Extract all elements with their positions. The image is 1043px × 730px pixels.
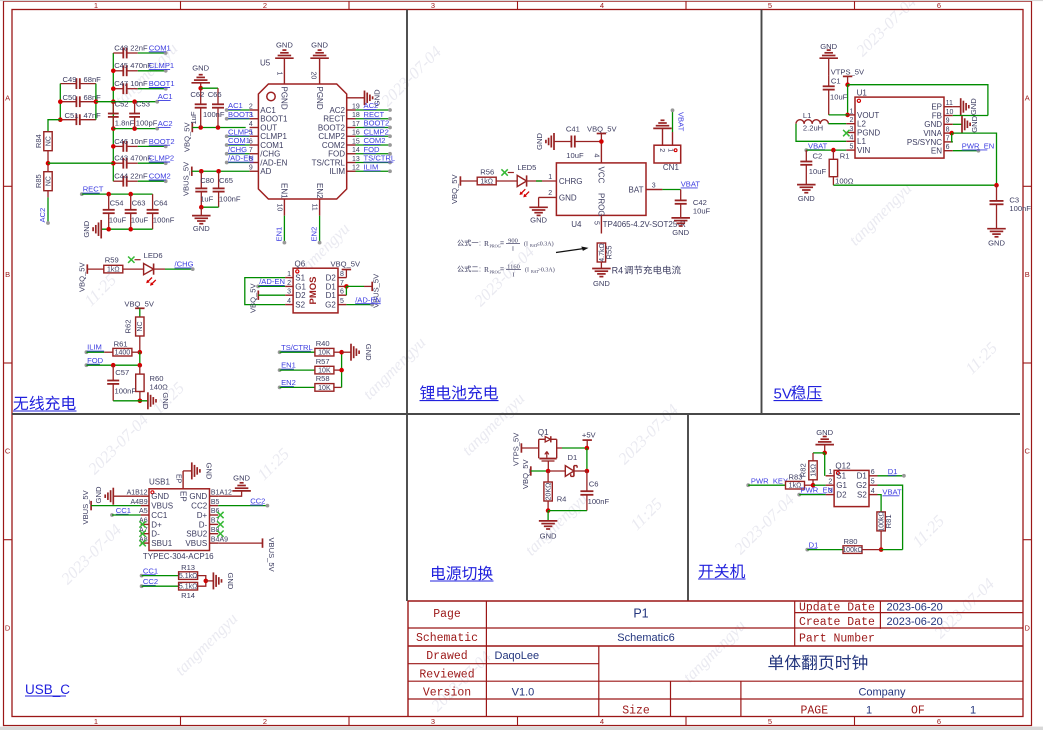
- svg-text:G1: G1: [295, 282, 306, 291]
- op-amp U5 wireless charger IC body: [258, 84, 346, 199]
- svg-text:B4A9: B4A9: [211, 536, 228, 543]
- svg-text:6: 6: [937, 1, 941, 10]
- svg-text:GND: GND: [205, 462, 214, 479]
- section title 电源切换: [432, 566, 493, 581]
- USB1 pin A7 D-: [141, 533, 149, 535]
- resistor R60 140: [139, 365, 141, 374]
- svg-text:Page: Page: [433, 608, 461, 621]
- svg-text:GND: GND: [593, 279, 610, 288]
- svg-text:BOOT1: BOOT1: [149, 79, 175, 88]
- svg-text:VBUS: VBUS: [151, 502, 173, 511]
- svg-text:EN1: EN1: [274, 227, 283, 242]
- wire FB to loop: [953, 115, 988, 117]
- svg-text:GND: GND: [798, 194, 815, 203]
- svg-text:EP: EP: [175, 474, 182, 484]
- svg-text:1: 1: [828, 469, 832, 476]
- svg-text:A: A: [5, 94, 10, 103]
- svg-text:2: 2: [548, 190, 552, 197]
- svg-text:3: 3: [431, 717, 435, 726]
- svg-text:EN2: EN2: [315, 183, 324, 199]
- U5 EP pin to ground: [347, 97, 365, 99]
- svg-text:1400: 1400: [115, 350, 131, 357]
- svg-text:1kΩ: 1kΩ: [480, 178, 493, 185]
- svg-text:CLMP2: CLMP2: [149, 154, 174, 163]
- Q12 pin 2 G1: [826, 484, 835, 486]
- svg-text:R: R: [484, 239, 489, 248]
- svg-text:10uF: 10uF: [693, 206, 711, 215]
- svg-text:COM2: COM2: [364, 136, 386, 145]
- wire to Q1 source: [521, 447, 538, 449]
- svg-text:100nF: 100nF: [153, 215, 175, 224]
- svg-text:/CHG: /CHG: [228, 145, 247, 154]
- svg-text:NC: NC: [137, 321, 144, 331]
- wire PWR_KEY to R83: [748, 484, 785, 486]
- capacitor C65 100nF: [218, 171, 220, 188]
- svg-text:I: I: [512, 271, 514, 278]
- svg-text:C66: C66: [208, 90, 222, 99]
- svg-text:TS/CTRL: TS/CTRL: [364, 154, 396, 163]
- svg-text:22nF: 22nF: [130, 172, 148, 181]
- USB1 pin A5 CC1: [141, 514, 149, 516]
- svg-text:CLMP1: CLMP1: [149, 61, 174, 70]
- svg-text:20KΩ: 20KΩ: [546, 483, 553, 501]
- svg-text:B: B: [1025, 270, 1030, 279]
- resistor R55 4.7k PROG: [597, 243, 605, 262]
- USB1 pin B8 SBU2: [210, 533, 219, 535]
- svg-text:8: 8: [946, 127, 950, 134]
- capacitor C3 100nF: [996, 185, 998, 201]
- svg-text:FB: FB: [932, 111, 942, 120]
- svg-text:GND: GND: [559, 193, 577, 202]
- Q12 pin 6 D1: [869, 475, 878, 477]
- Q6 pin 8 D2: [338, 277, 346, 279]
- junction: [111, 161, 116, 166]
- svg-text:5: 5: [768, 1, 772, 10]
- svg-text:COM2: COM2: [149, 172, 171, 181]
- power flag VBQ_5V: [191, 123, 193, 132]
- svg-text:3: 3: [287, 289, 291, 296]
- wire Q1 gate down: [547, 461, 549, 471]
- ground right GND pin: [218, 491, 241, 496]
- ground C42: [671, 218, 690, 226]
- svg-text:C63: C63: [132, 199, 146, 208]
- svg-text:VCC: VCC: [597, 167, 606, 184]
- svg-text:1uF: 1uF: [189, 111, 198, 124]
- wire junction to bus CLMP2 row: [48, 162, 113, 164]
- wire GND to C66 top: [201, 87, 218, 89]
- wire net CC2: [218, 505, 267, 507]
- wire +5V down to D1 cathode: [586, 448, 588, 471]
- connector USB1 TYPEC body: [149, 489, 210, 551]
- svg-text:C50: C50: [63, 93, 77, 102]
- U5 pin 12 ILIM: [347, 170, 356, 172]
- wire net PWR_EN: [953, 150, 979, 152]
- wire to R56: [460, 180, 477, 182]
- svg-text:>0.3A): >0.3A): [538, 267, 555, 274]
- capacitor C62 1uF: [200, 88, 202, 104]
- svg-text:PAGE: PAGE: [801, 704, 829, 717]
- svg-text:C41: C41: [566, 125, 580, 134]
- LED LED5: [517, 175, 526, 186]
- resistor R13 5.1k: [179, 572, 198, 580]
- wire net EN1: [283, 216, 285, 243]
- junction: [132, 126, 137, 131]
- svg-text:R61: R61: [114, 339, 128, 348]
- CN1 pin2 to ground: [662, 128, 664, 145]
- capacitor C46 10nF: [113, 145, 123, 147]
- svg-text:8: 8: [340, 271, 344, 278]
- svg-text:VTPS_5V: VTPS_5V: [831, 68, 865, 77]
- svg-text:1: 1: [548, 174, 552, 181]
- svg-text:GND: GND: [530, 216, 547, 225]
- svg-text:VOUT: VOUT: [857, 111, 879, 120]
- svg-text:5: 5: [768, 717, 772, 726]
- svg-text:4: 4: [849, 135, 853, 142]
- svg-text:L1: L1: [803, 111, 811, 120]
- title block project name 单体翻页时钟: [768, 655, 867, 670]
- ground below C80: [200, 207, 202, 215]
- svg-text::: :: [479, 241, 481, 248]
- capacitor C52 1.8nF: [112, 102, 114, 114]
- net label PWR_KEY: [746, 483, 750, 487]
- svg-text:R4: R4: [557, 494, 567, 503]
- formula 1: [457, 239, 478, 246]
- resistor R1 100: [832, 150, 834, 159]
- svg-text:100nF: 100nF: [203, 110, 225, 119]
- wire to R59: [87, 268, 103, 270]
- USB1 pin A6 D+: [141, 523, 149, 525]
- svg-text:5: 5: [849, 144, 853, 151]
- svg-text:100nF: 100nF: [1009, 204, 1031, 213]
- svg-text:1: 1: [287, 271, 291, 278]
- power flag VTPS_5V at Q1: [520, 443, 522, 452]
- svg-text:Size: Size: [622, 704, 650, 717]
- svg-text:GND: GND: [373, 89, 382, 106]
- svg-text:10K: 10K: [318, 385, 331, 392]
- svg-text:16: 16: [352, 130, 360, 137]
- power flag VBQ_5V at R56: [459, 176, 461, 185]
- wire R85 to AC2: [47, 191, 49, 198]
- wire to R84: [48, 120, 60, 132]
- svg-text:PS/SYNC: PS/SYNC: [907, 138, 942, 147]
- svg-text:CC2: CC2: [191, 502, 208, 511]
- svg-text:USB_C: USB_C: [25, 682, 70, 697]
- svg-text:A: A: [1025, 94, 1030, 103]
- USB1 pin B4A9 VBUS: [210, 542, 219, 544]
- svg-text:AD: AD: [260, 167, 271, 176]
- ground for C54 block: [93, 220, 101, 239]
- frame column ticks top/bottom: [180, 1, 182, 9]
- svg-text:R62: R62: [124, 320, 133, 334]
- IC U4 TP4065: [556, 163, 646, 216]
- svg-text:D2: D2: [836, 491, 847, 500]
- svg-text:13: 13: [352, 156, 360, 163]
- ground Q1 R4: [547, 511, 549, 521]
- wire VBUS right: [218, 542, 262, 544]
- svg-text:C53: C53: [136, 100, 150, 109]
- svg-text:VBUS_5V: VBUS_5V: [81, 489, 90, 524]
- svg-text:4: 4: [287, 298, 291, 305]
- svg-text:R84: R84: [34, 134, 43, 148]
- wire net AC1: [113, 101, 157, 103]
- junction: [111, 144, 116, 149]
- svg-text:/AD-EN: /AD-EN: [355, 295, 381, 304]
- svg-text:U5: U5: [260, 59, 271, 68]
- svg-text:Drawed: Drawed: [426, 650, 467, 663]
- svg-text:2: 2: [263, 1, 267, 10]
- ground left GND pin: [113, 495, 140, 497]
- no-connect X A6 A7 A8: [139, 521, 145, 527]
- wire R62 to junction: [139, 336, 141, 352]
- svg-text:FOD: FOD: [328, 150, 345, 159]
- svg-text:COM1: COM1: [260, 141, 284, 150]
- wire right of C49 block: [95, 84, 97, 120]
- svg-text:BOOT2: BOOT2: [364, 119, 390, 128]
- svg-text:D1: D1: [857, 472, 868, 481]
- svg-text:D1: D1: [809, 540, 819, 549]
- svg-text:2023-06-20: 2023-06-20: [887, 616, 943, 628]
- wire ILIM: [86, 351, 104, 353]
- capacitor C80 1uF: [200, 171, 202, 188]
- wire net CLMP1: [138, 70, 166, 72]
- wire junction down to FOD row: [139, 352, 141, 365]
- svg-text:2: 2: [849, 117, 853, 124]
- U5 pin 11 EN2 bottom: [319, 199, 321, 216]
- capacitor C54 10uF: [108, 194, 110, 210]
- wire net /AD-EN left: [227, 162, 250, 164]
- wire VBAT to VIN: [806, 149, 846, 151]
- wire GND to S1: [824, 453, 826, 476]
- svg-text:OF: OF: [911, 704, 925, 717]
- net label RECT: [80, 192, 84, 196]
- svg-text:VBUS_5V: VBUS_5V: [182, 161, 191, 196]
- wire VBUS left: [91, 505, 141, 507]
- svg-text:LED5: LED5: [517, 163, 536, 172]
- section divider horizontal y=414: [12, 413, 1020, 415]
- svg-text:GND: GND: [276, 40, 293, 49]
- net label CC1 at R13: [140, 574, 144, 578]
- svg-text:AC1: AC1: [228, 101, 243, 110]
- wire net BOOT1 left: [227, 118, 250, 120]
- wire net EN2: [319, 216, 321, 243]
- svg-text:RECT: RECT: [364, 110, 385, 119]
- svg-text:DaqoLee: DaqoLee: [495, 650, 540, 662]
- svg-text:D: D: [5, 624, 11, 633]
- section title 无线充电: [14, 396, 76, 411]
- svg-text:PGND: PGND: [315, 87, 324, 110]
- bottom gray strip: [0, 727, 1043, 730]
- svg-text:VBQ_5V: VBQ_5V: [521, 459, 530, 489]
- svg-text:AC2: AC2: [38, 208, 47, 223]
- svg-text:5: 5: [871, 479, 875, 486]
- svg-text:Create Date: Create Date: [799, 616, 875, 629]
- svg-text:Part Number: Part Number: [799, 633, 875, 646]
- Q6 pin 2 G1: [285, 285, 293, 287]
- ground C3: [987, 229, 1006, 237]
- power flag VBUS_5V: [191, 167, 193, 176]
- capacitor C44 22nF: [113, 180, 123, 182]
- svg-text:Reviewed: Reviewed: [419, 668, 474, 681]
- svg-text:BOOT1: BOOT1: [228, 110, 254, 119]
- capacitor C50 68nF: [60, 101, 76, 103]
- wire R13/R14 common: [198, 576, 206, 587]
- svg-text:3: 3: [431, 1, 435, 10]
- svg-text:VBAT: VBAT: [681, 180, 701, 189]
- svg-text:7: 7: [340, 280, 344, 287]
- svg-text:VTPS_5V: VTPS_5V: [511, 432, 520, 466]
- capacitor C53 100pF: [134, 102, 136, 114]
- U1 pin 7 PS/SYNC: [944, 141, 953, 143]
- wire D1 to R80: [807, 549, 843, 551]
- U5 pin 9 AD: [250, 170, 259, 172]
- U1 pin 6 EN: [944, 150, 953, 152]
- wire VBQ to D1: [531, 470, 548, 472]
- wire LED5 to U4 pin1: [527, 180, 557, 182]
- capacitor C45 470nF: [113, 70, 123, 72]
- svg-text:1kΩ: 1kΩ: [789, 483, 802, 490]
- svg-text:47nF: 47nF: [84, 111, 102, 120]
- junction: [599, 139, 604, 144]
- net label EN1: [278, 368, 282, 372]
- resistor R57 10K: [315, 366, 334, 374]
- svg-text:COM1: COM1: [149, 43, 171, 52]
- svg-text:6: 6: [937, 717, 941, 726]
- svg-text:2.2uH: 2.2uH: [803, 124, 823, 133]
- svg-text:R59: R59: [105, 255, 119, 264]
- svg-text:4: 4: [600, 717, 604, 726]
- Q12 pin 1 S1: [826, 475, 835, 477]
- svg-text:BAT: BAT: [629, 185, 644, 194]
- svg-text:BOOT2: BOOT2: [318, 123, 346, 132]
- svg-text:TYPEC-304-ACP16: TYPEC-304-ACP16: [143, 552, 214, 561]
- svg-text:1: 1: [667, 148, 674, 152]
- capacitor C42 10uF: [680, 190, 682, 200]
- wire net BOOT2: [356, 127, 391, 129]
- svg-text:C2: C2: [813, 151, 823, 160]
- svg-text:AC1: AC1: [158, 92, 173, 101]
- IC U1 regulator: [855, 97, 944, 158]
- svg-text:SBU2: SBU2: [186, 530, 207, 539]
- svg-text:GND: GND: [535, 133, 544, 150]
- svg-text:BOOT2: BOOT2: [149, 137, 175, 146]
- power flag VBUS_5V right: [262, 538, 264, 547]
- svg-text:1kΩ: 1kΩ: [107, 267, 120, 274]
- svg-text:/CHG: /CHG: [260, 150, 280, 159]
- svg-text:ILIM: ILIM: [329, 167, 345, 176]
- capacitor C47 10nF: [113, 88, 123, 90]
- svg-text:R85: R85: [34, 174, 43, 188]
- svg-text:PMOS: PMOS: [308, 277, 319, 305]
- svg-text:GND: GND: [82, 220, 91, 237]
- svg-text:A4B9: A4B9: [130, 499, 147, 506]
- resistor R62 NC: [136, 317, 144, 336]
- svg-text:B6: B6: [211, 508, 220, 515]
- net label PWR_EN at D2: [797, 493, 801, 497]
- svg-text:L1: L1: [857, 137, 866, 146]
- ground C41: [546, 133, 554, 150]
- Q6 pin 5 G2: [338, 304, 346, 306]
- svg-text:VBAT: VBAT: [882, 487, 902, 496]
- U5 pin 17 BOOT2: [347, 127, 356, 129]
- svg-text:GND: GND: [969, 98, 978, 115]
- svg-text:EN1: EN1: [281, 361, 296, 370]
- svg-text:7: 7: [946, 135, 950, 142]
- svg-text:R57: R57: [316, 357, 330, 366]
- svg-text:D2: D2: [295, 291, 306, 300]
- svg-text:=: =: [500, 241, 504, 248]
- svg-text:PGND: PGND: [280, 87, 289, 110]
- wire R80 to VBAT rail corner: [881, 549, 903, 551]
- U5 pin 6 COM1: [250, 144, 259, 146]
- svg-text:11: 11: [311, 204, 318, 211]
- svg-text:9: 9: [946, 118, 950, 125]
- capacitor C49 68nF: [60, 83, 76, 85]
- svg-text:C49: C49: [63, 75, 77, 84]
- transistor Q12 body: [834, 470, 869, 506]
- wire R59 to LED6: [123, 268, 144, 270]
- Q12 pin 4 S2: [869, 494, 878, 496]
- svg-text:TS/CTRL: TS/CTRL: [312, 158, 346, 167]
- svg-text:5.1kΩ: 5.1kΩ: [179, 584, 197, 591]
- wire R56 to LED5: [496, 180, 517, 182]
- svg-text:C65: C65: [219, 176, 233, 185]
- svg-text:100pF: 100pF: [136, 119, 158, 128]
- resistor R40 10K: [315, 348, 334, 356]
- svg-text:GND: GND: [226, 572, 235, 589]
- svg-text:VBQ_5V: VBQ_5V: [248, 283, 257, 313]
- U5 pin 15 COM2: [347, 144, 356, 146]
- svg-text:PWR_KEY: PWR_KEY: [751, 477, 788, 486]
- svg-text:GND: GND: [988, 238, 1005, 247]
- wire net COM2: [356, 144, 391, 146]
- svg-text:1: 1: [970, 704, 976, 716]
- svg-text:10uF: 10uF: [809, 167, 827, 176]
- svg-text:GND: GND: [94, 486, 103, 503]
- svg-text:GND: GND: [970, 115, 979, 132]
- wire TS/CTRL to R40: [280, 351, 316, 353]
- svg-text:D+: D+: [197, 511, 208, 520]
- svg-text:EN: EN: [931, 147, 942, 156]
- svg-text:5.1kΩ: 5.1kΩ: [179, 573, 197, 580]
- wire FOD row: [86, 364, 139, 366]
- svg-text:6: 6: [871, 469, 875, 476]
- U5 pin 10 EN1 bottom: [283, 199, 285, 216]
- wire net /AD-EN right: [346, 304, 372, 306]
- wire CC1 to R13: [142, 575, 179, 577]
- svg-text:GND: GND: [672, 228, 689, 237]
- svg-text:Update Date: Update Date: [799, 602, 875, 615]
- svg-text:12: 12: [352, 165, 360, 172]
- wire Q6 D1 to VBUS_5V: [344, 284, 349, 289]
- net label FOD: [85, 363, 89, 367]
- svg-text:Q12: Q12: [835, 462, 851, 471]
- Q12 pin 3 D2: [826, 494, 835, 496]
- capacitor C51 47nF: [60, 119, 76, 121]
- svg-text:2: 2: [263, 717, 267, 726]
- svg-text:R83: R83: [789, 473, 803, 482]
- svg-text:VBQ_5V: VBQ_5V: [182, 122, 191, 152]
- svg-text:GND: GND: [151, 492, 169, 501]
- svg-text:10uF: 10uF: [131, 215, 149, 224]
- svg-text:R56: R56: [480, 168, 494, 177]
- svg-text:11: 11: [946, 100, 953, 107]
- svg-text:PWR_EN: PWR_EN: [801, 486, 834, 495]
- svg-text:VBUS_5V: VBUS_5V: [267, 538, 276, 573]
- svg-text:2: 2: [287, 280, 291, 287]
- junction VTPS: [845, 82, 850, 87]
- svg-text:NC: NC: [45, 176, 52, 186]
- resistor R81 100k: [877, 512, 885, 531]
